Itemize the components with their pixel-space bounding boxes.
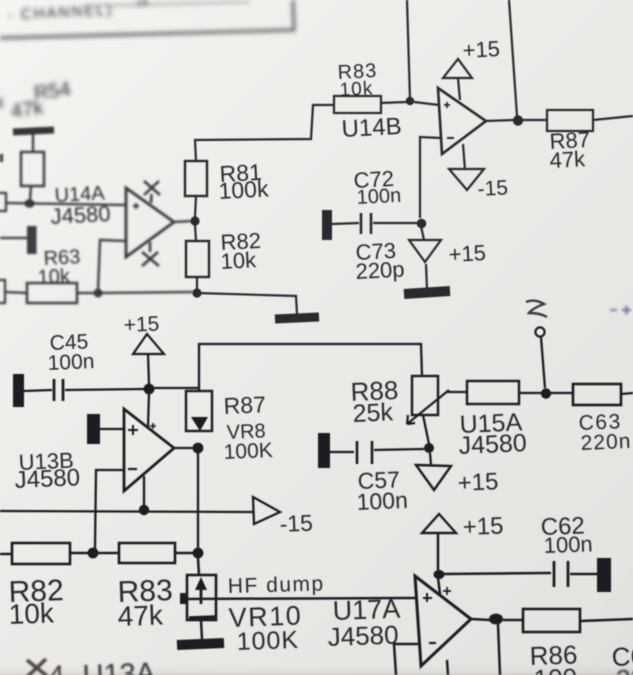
capacitor C45 plates: [54, 379, 63, 401]
resistor R82: [186, 241, 209, 277]
+15 supply triangle (U17A): [422, 514, 456, 533]
-15 supply triangle (down): [449, 169, 484, 190]
capacitor C72 plates: [361, 213, 371, 234]
wire bar to resistor: [32, 134, 34, 152]
wire C63 resistor to right edge: [621, 393, 633, 394]
+15 supply triangle (down, at C73 node): [421, 226, 424, 240]
wire node to ground drop: [197, 293, 297, 314]
wire U17A output: [471, 619, 490, 620]
connector bar (C45 left): [13, 374, 24, 407]
svg-text:-15: -15: [477, 176, 509, 201]
wire bar to C57: [330, 451, 354, 453]
buffer arrow (-15): [253, 497, 280, 524]
wire node to C62: [443, 573, 551, 574]
wire node to R82: [195, 225, 196, 241]
wire U14A output: [174, 221, 191, 222]
wire R82 to node: [70, 552, 89, 555]
wire R88 bottom to node: [423, 415, 429, 444]
op-amp U14A: [126, 188, 174, 257]
node junction: [88, 548, 99, 559]
svg-text:+15: +15: [462, 513, 504, 541]
VR8 wiper arrow: [191, 417, 208, 431]
connector bar (C72 left): [322, 210, 332, 240]
wire resistor to node: [519, 392, 542, 394]
supply stem: [437, 533, 440, 570]
svg-text:16: 16: [136, 0, 148, 9]
wire U14B lower input: [420, 137, 441, 218]
+15 supply triangle (U13B): [133, 334, 164, 354]
wire C45 to +15 node: [65, 389, 145, 390]
supply stem: [148, 354, 149, 384]
VR10 box bottom shade: [189, 617, 215, 618]
svg-text:100K: 100K: [236, 626, 299, 656]
vertical feed wire from top edge: [407, 0, 410, 100]
left edge tick: [0, 154, 3, 162]
node C72 junction: [417, 219, 427, 229]
svg-text:+15: +15: [462, 36, 501, 63]
svg-text:+15: +15: [457, 468, 499, 497]
wire U17A lower input: [394, 644, 421, 675]
resistor R83 (top): [334, 96, 381, 113]
+15 supply (down triangle at C57 node): [430, 453, 431, 465]
svg-text:R87: R87: [223, 391, 266, 419]
wire bar to C45: [24, 390, 52, 391]
svg-text:10k: 10k: [339, 78, 374, 101]
dark mark at left edge: [0, 295, 2, 348]
small plus near supply pin: [443, 587, 451, 595]
wire C72 to node: [373, 222, 417, 224]
node +15/C45 junction: [144, 384, 155, 395]
svg-text:100n: 100n: [543, 531, 593, 558]
handwritten squiggle mark: [526, 301, 547, 317]
title block border bottom edge: [0, 0, 294, 38]
svg-text:HF dump: HF dump: [228, 572, 325, 598]
svg-text:47k: 47k: [10, 97, 46, 123]
svg-text:47k: 47k: [117, 599, 164, 632]
R88 wiper diagonal arrow: [407, 390, 449, 424]
svg-text:J4580: J4580: [14, 464, 81, 494]
node on -15 rail: [139, 505, 149, 515]
X mark above U14A: [144, 181, 160, 203]
VR10 wiper tap tick: [180, 593, 187, 604]
U17A minus mark: [429, 642, 436, 644]
resistor R87: [547, 110, 593, 131]
wire output node down: [498, 624, 500, 675]
ground bar (VR10): [177, 643, 224, 645]
resistor R63: [27, 283, 77, 303]
wire C62 to bar: [570, 573, 597, 576]
wire wiper to U15A resistor: [446, 391, 467, 393]
svg-text:J4580: J4580: [50, 201, 111, 229]
wire HF dump to U17A: [182, 598, 416, 599]
wire - input down to bottom row: [95, 470, 124, 549]
resistor (U15A input): [467, 381, 519, 404]
op-amp U13B: [124, 409, 174, 491]
op-amp U17A: [415, 576, 471, 666]
wire R81 top to R83: [195, 105, 334, 161]
stub op-amp V- down: [447, 660, 448, 675]
wire C57 to node: [374, 449, 424, 450]
resistor R83 (bottom): [119, 543, 175, 563]
wire bar to C72: [332, 223, 359, 224]
stub op-amp to rail: [143, 476, 145, 507]
U14B plus mark: [444, 102, 450, 108]
svg-text:25k: 25k: [352, 398, 394, 428]
svg-text:220n: 220n: [580, 430, 632, 455]
svg-text:100n: 100n: [356, 487, 408, 515]
svg-text:10k: 10k: [220, 247, 258, 274]
wire R83 to node: [380, 102, 407, 103]
wire node to R87: [522, 119, 547, 121]
svg-text:+15: +15: [123, 312, 160, 337]
svg-text:100n: 100n: [47, 350, 95, 375]
small plus at U13B supply pin: [150, 423, 156, 429]
bottom dark band: [0, 665, 633, 675]
svg-text:J4580: J4580: [458, 429, 527, 460]
node junction: [94, 289, 103, 298]
svg-text:J4580: J4580: [327, 620, 399, 652]
node output junction: [489, 614, 503, 625]
resistor partial at left edge (R63 row): [0, 280, 5, 303]
wire node to R83: [97, 552, 119, 555]
svg-text:10k: 10k: [8, 597, 55, 630]
resistor R81: [185, 161, 207, 196]
connector bar mid-left: [27, 226, 37, 254]
wire bar to + input: [100, 428, 124, 430]
node R88/C57 junction: [424, 443, 434, 453]
svg-text:100k: 100k: [218, 175, 270, 204]
wire lower input of U14A: [98, 240, 126, 291]
ground bar (C73): [404, 291, 450, 294]
VR10 wiper arrow: [195, 577, 207, 590]
wire node to C63 resistor: [551, 392, 573, 394]
SCHEMATIC: [0, 0, 294, 123]
U13B plus mark: [128, 425, 138, 435]
wire node to R86: [503, 619, 523, 622]
vertical feed from top edge: [509, 0, 517, 116]
X mark below U14A: [142, 242, 159, 266]
wire R63 to node: [77, 292, 94, 294]
wire U13B output to node: [174, 447, 193, 449]
wire node to U14B + input: [414, 102, 439, 105]
node supply/C62 junction: [434, 570, 445, 579]
capacitor C62 plates: [554, 561, 568, 587]
-15 supply stem: [463, 144, 465, 170]
U14B minus mark: [447, 137, 454, 139]
U13B minus mark: [128, 468, 137, 470]
op-amp U14B: [438, 88, 486, 154]
U17A plus mark: [423, 593, 432, 602]
wire -15 rail: [0, 511, 253, 512]
svg-text:100K: 100K: [223, 439, 273, 464]
resistor partial at left edge: [0, 193, 6, 211]
wire from left edge to bar: [0, 237, 27, 239]
resistor R86: [523, 609, 580, 632]
wire node to R82 node: [98, 292, 193, 293]
faint blue pen mark: [610, 306, 631, 315]
node output junction: [513, 115, 523, 125]
wire long top rail to R88: [199, 344, 422, 391]
svg-text:-15: -15: [279, 510, 313, 537]
supply stem: [458, 78, 460, 100]
node below R82: [192, 288, 201, 297]
node VR8/output junction: [193, 443, 204, 454]
wire node into op-amp top: [148, 392, 149, 427]
X mark bottom left: [27, 659, 47, 675]
svg-text:10k: 10k: [37, 265, 71, 289]
wire left edge to R82: [0, 553, 12, 556]
wire node down to bottom row: [197, 453, 199, 549]
resistor (vertical, unlabelled): [21, 152, 44, 186]
wire R87 to right edge: [593, 116, 633, 120]
svg-text:220p: 220p: [355, 256, 405, 284]
wire VR10 to ground: [201, 620, 202, 639]
wire U14B output to node: [486, 120, 514, 121]
connector bar (C62 right): [597, 558, 611, 592]
wire R86 to right edge: [580, 619, 633, 621]
connector circle: [535, 327, 544, 336]
connector bar (C57 left): [318, 433, 330, 468]
svg-text:47k: 47k: [549, 146, 587, 173]
node circle-drop junction: [541, 388, 551, 398]
svg-text:100n: 100n: [356, 185, 402, 209]
wire R81 bottom to node: [195, 196, 196, 217]
U14A plus input mark: [133, 203, 139, 209]
node R81/R82/output junction: [190, 216, 199, 225]
svg-text:+15: +15: [448, 240, 487, 267]
ground bar: [275, 317, 319, 319]
node junction dot: [24, 199, 34, 207]
wire R83 to node: [175, 552, 193, 555]
resistor (C63 series): [573, 384, 621, 405]
node R83/U14B junction: [406, 97, 414, 105]
title block inner rule: [85, 2, 250, 6]
wire R82 bottom to node: [196, 277, 198, 289]
trimmer VR8 (R87): [186, 391, 212, 431]
+15 supply triangle (U14B): [443, 59, 472, 78]
resistor R82 (bottom): [12, 543, 70, 564]
wire to R63: [5, 292, 27, 293]
wire node to op-amp input: [6, 203, 126, 205]
svg-text:x: x: [0, 92, 4, 112]
svg-text:U14B: U14B: [341, 113, 402, 143]
trimmer VR10: [187, 575, 216, 620]
capacitor C57 plates: [357, 441, 372, 464]
wire node to VR10: [198, 558, 199, 575]
rail bar top-left: [13, 130, 54, 132]
trimmer R88: [412, 376, 438, 415]
wire resistor to node: [30, 186, 31, 200]
connector bar (U13B + input): [87, 414, 100, 444]
supply into op-amp: [438, 578, 440, 594]
stem to ground: [426, 264, 427, 289]
node VR10 junction: [193, 548, 204, 559]
wire circle to node: [541, 337, 545, 388]
wire node to VR8 column: [149, 387, 200, 389]
